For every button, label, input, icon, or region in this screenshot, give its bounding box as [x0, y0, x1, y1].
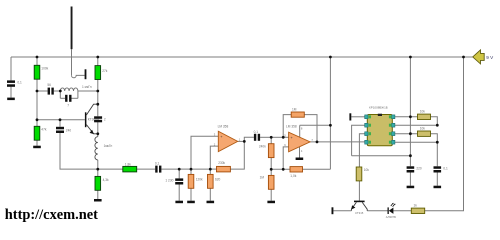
wire U2 pin 6 [283, 147, 288, 169]
terminal bar line input [332, 207, 334, 214]
wire U1 feedback node to R 230k [210, 168, 216, 170]
wire node A to node B [179, 168, 191, 170]
wire IC pin 3 right to R 10k B [395, 133, 418, 135]
wire node 91 to C 56 [37, 90, 48, 92]
svg-text:0,1: 0,1 [17, 81, 22, 85]
node base row left [36, 118, 39, 121]
wire R 240k bottom lead [270, 158, 272, 170]
wire C 1230 top lead [178, 169, 180, 178]
node U2 output [316, 141, 319, 144]
capacitor C4 240 [56, 127, 64, 133]
wire bottom row to R 1.8k [98, 168, 123, 170]
svg-text:1M: 1M [260, 176, 265, 180]
inductor L1 tank coil [60, 88, 78, 91]
wire node B to node C [191, 168, 210, 170]
svg-text:1M: 1M [292, 108, 297, 112]
wire far right drop [425, 57, 464, 211]
svg-text:КР1008ВЖ1Б: КР1008ВЖ1Б [369, 106, 388, 110]
node U1 output [243, 140, 246, 143]
wire U2 feedback riser to R 1M [283, 115, 291, 138]
node tank left [59, 90, 62, 93]
antenna coupling plate [85, 69, 87, 79]
wire C 1230 to ground [178, 184, 180, 200]
wire supply drop right of IC [409, 57, 411, 166]
wire R 240k node to feedback node [271, 136, 283, 138]
transistor Q2 KT315 bar [354, 201, 365, 203]
LED VD1 triangle [389, 208, 394, 214]
LED VD1 arrows [391, 203, 395, 207]
wire terminal to Q2 emitter [333, 210, 351, 212]
resistor R16 1k out [411, 208, 424, 213]
wire U2 power stub [299, 125, 301, 137]
node rail right drop [462, 56, 465, 59]
svg-text:10k: 10k [364, 168, 370, 172]
wire R 100k to node 91 [36, 79, 38, 91]
ground under C7 [175, 201, 183, 204]
resistor R6 120k [188, 174, 194, 188]
resistor R1 100k [34, 65, 40, 79]
wire collector node to C 2 [97, 104, 99, 116]
svg-text:240: 240 [66, 128, 72, 132]
svg-text:1,8k: 1,8k [125, 162, 131, 166]
resistor R5 1.8k [123, 166, 137, 172]
transistor Q2 emitter lead [351, 202, 356, 211]
node R240k top [270, 136, 273, 139]
node bias right [282, 168, 285, 171]
capacitor C8 0.1 interstage [254, 134, 260, 141]
resistor R3 27k [95, 66, 101, 80]
resistor R12 1.0k bias [290, 167, 303, 172]
wire R 230k to output riser [230, 141, 244, 169]
svg-text:2: 2 [104, 118, 106, 122]
wire C 2 to emitter node [97, 122, 99, 134]
resistor R14 10k B [418, 131, 431, 136]
wire IC pin 2 right [395, 124, 437, 126]
node emitter [96, 132, 99, 135]
capacitor C6 0.1 coupling [155, 166, 161, 173]
wire antenna thin lead [71, 49, 73, 75]
wire R 47k to ground [36, 140, 38, 146]
power arrow 9V [473, 50, 485, 64]
IC U3 inner pin marks right [389, 115, 391, 143]
svg-text:10k: 10k [420, 110, 426, 114]
svg-text:0,1: 0,1 [155, 162, 160, 166]
wire bias node to R 1M lower [270, 169, 272, 175]
node divider mid [36, 90, 39, 93]
svg-text:КТ315: КТ315 [355, 211, 363, 215]
wire R 120k top lead [190, 169, 192, 174]
node C pin2 [209, 168, 212, 171]
node rail IC drop [409, 56, 412, 59]
svg-text:100k: 100k [41, 66, 48, 70]
node R10kA junction [436, 124, 439, 127]
wire left drop from rail to C 0.1 [10, 57, 12, 80]
wire R 10k A to junction [431, 117, 438, 125]
resistor R4 4.7k [95, 176, 101, 190]
capacitor C10 0.1 right [434, 166, 442, 172]
wire bottom node to R 4.7k [97, 169, 99, 176]
IC U3 pin pads left [365, 115, 368, 144]
svg-text:7: 7 [67, 103, 69, 107]
svg-text:10k: 10k [420, 127, 426, 131]
wire R 1M lower to ground [270, 189, 272, 200]
node rail supply tap [329, 56, 332, 59]
LED VD1 cathode bar [388, 207, 389, 214]
antenna W1 mast [71, 7, 73, 50]
svg-text:56: 56 [47, 83, 51, 87]
IC U3 inner pin marks left [369, 115, 371, 143]
wire R 1.8k to C 0.1 input [137, 168, 156, 170]
resistor R7 620 [208, 174, 214, 188]
wire R 10k B to junction [431, 134, 438, 143]
wire U2 power row to supply tap [300, 124, 331, 126]
wire R 240k top lead [270, 137, 272, 143]
wire R 27k to tank node [97, 80, 99, 92]
node base row C240 [59, 118, 62, 121]
capacitor C5 2 [94, 116, 102, 122]
wire U1 output [238, 140, 245, 142]
svg-text:1k: 1k [414, 203, 418, 207]
svg-text:LM 358: LM 358 [218, 125, 229, 129]
svg-text:4,3k: 4,3k [103, 178, 109, 182]
node tank right [96, 90, 99, 93]
svg-text:1,0k: 1,0k [290, 174, 296, 178]
wire C 0.1 to node A [161, 168, 179, 170]
wire tank right side [77, 91, 79, 98]
node emitter bottom [96, 168, 99, 171]
transistor Q1 emitter lead [86, 125, 97, 134]
wire IC pin 4 right [395, 141, 437, 143]
wire C 240 down and right to bottom row [60, 133, 98, 170]
svg-text:1 230: 1 230 [165, 179, 173, 183]
ground under R7 [207, 201, 215, 204]
capacitor C9 220 [407, 166, 415, 172]
node supply tap mid [329, 124, 332, 127]
inductor L2 emitter choke [95, 137, 98, 160]
node rail R1 [36, 56, 39, 59]
resistor R10 1M feedback [291, 112, 304, 117]
wire base row [37, 119, 85, 121]
resistor R2 47k [34, 126, 40, 140]
svg-text:0,1: 0,1 [443, 167, 448, 171]
wire tank left side [59, 91, 61, 98]
IC U3 pin pads right [392, 115, 395, 144]
wire coil L2 to bottom node [97, 160, 99, 169]
wire U2 ground stub [299, 147, 301, 158]
wire IC pin 1 right to R 10k A [395, 116, 418, 118]
wire R 1k bias to supply tap corner [303, 168, 331, 170]
wire R 120k to ground [190, 188, 192, 200]
wire C 56 to tank left node [54, 90, 61, 92]
wire emitter node to coil L2 [97, 134, 99, 137]
op-amp U2 LM358 [289, 132, 311, 152]
ground left [7, 98, 15, 101]
capacitor C2 56 [48, 88, 54, 95]
transistor Q1 KT368A base bar [85, 112, 87, 127]
svg-text:0,1: 0,1 [254, 130, 259, 134]
svg-text:230k: 230k [218, 161, 225, 165]
wire rail to R 27k [97, 57, 99, 66]
ground bar U2 pin 4 [296, 158, 304, 161]
svg-text:1мкГн: 1мкГн [104, 144, 113, 148]
wire C 0.1 right to ground [436, 172, 438, 185]
wire R 1M to output drop [304, 115, 317, 142]
transistor Q2 emitter arrow [351, 205, 355, 209]
ground under R4 [94, 199, 102, 202]
wire IC pin 3 left riser [359, 134, 364, 167]
svg-text:220: 220 [416, 167, 422, 171]
node collector [96, 103, 99, 106]
capacitor C3 7 tank [65, 95, 71, 102]
wire C 240 top lead [59, 120, 61, 127]
svg-text:1 мкГн: 1 мкГн [82, 85, 92, 89]
wire pin 2 row to supply drop [352, 155, 411, 157]
wire C 220 to ground [409, 172, 411, 185]
transistor Q1 emitter arrow [90, 130, 94, 134]
node B pin3 [190, 168, 193, 171]
node IC drop pin3 [409, 132, 412, 135]
wire op-amp U1 pin 3 riser [191, 136, 218, 169]
wire tank bottom right stub [72, 97, 78, 99]
ground under R6 [187, 201, 195, 204]
resistor R8 230k feedback [217, 166, 231, 172]
resistor R13 10k A [418, 114, 431, 119]
wire supply tap vertical [329, 57, 331, 169]
wire tank bottom left stub [60, 97, 65, 99]
wire node to R 47k [36, 120, 38, 127]
wire R 10k base to Q2 [358, 181, 360, 201]
wire junction down to C 0.1 right [436, 142, 438, 166]
resistor R15 10k base [356, 167, 362, 181]
ground under R2 [33, 146, 41, 149]
svg-text:120k: 120k [196, 178, 203, 182]
svg-text:9 V: 9 V [486, 55, 494, 60]
wire node 91 to node 119.8 [36, 91, 38, 120]
wire bias row [271, 168, 290, 170]
svg-text:http://cxem.net: http://cxem.net [5, 207, 98, 223]
svg-text:620: 620 [215, 178, 221, 182]
wire tank node to collector node [97, 91, 99, 104]
capacitor C1 0.1 left [7, 80, 15, 86]
svg-text:47k: 47k [41, 127, 47, 131]
ground under R11 [267, 201, 275, 204]
wire U1 output jog up to C 0.1 [244, 137, 254, 141]
wire antenna hook [71, 75, 84, 77]
transistor Q1 collector lead [86, 104, 97, 115]
wire C 0.1 to R 240k node [260, 136, 271, 138]
wire R 620 to ground [209, 188, 211, 200]
svg-text:LM 358: LM 358 [286, 124, 297, 128]
wire U2 output row to IC pin 4 [310, 141, 365, 143]
ground under C10 [434, 186, 442, 189]
wire rail to R 100k [36, 57, 38, 65]
svg-text:АЛ307Б: АЛ307Б [386, 215, 396, 219]
wire R 4.7k to ground [97, 190, 99, 199]
svg-text:240k: 240k [259, 144, 266, 148]
node IC drop pin1 [409, 115, 412, 118]
node rail R3 [96, 56, 99, 59]
node bias left [270, 168, 273, 171]
node R10kB junction [436, 141, 439, 144]
transistor Q2 collector lead [362, 202, 367, 211]
wire IC pin 2 left [352, 125, 365, 156]
terminal bar IC pin 1 input [349, 113, 351, 120]
resistor R11 1M lower [268, 175, 274, 189]
wire feedback node to op-amp U2 pin 5 [283, 136, 288, 138]
op-amp U1 LM358 [218, 131, 237, 151]
ground under C9 [407, 186, 415, 189]
IC U3 KR1008 body [367, 115, 392, 146]
capacitor C7 1230 [175, 178, 183, 184]
node U2 feedback top [282, 136, 285, 139]
node A input [178, 168, 181, 171]
node IC drop C220 [409, 154, 412, 157]
wire R 620 top lead [209, 169, 211, 174]
wire LED to R 1k out [393, 210, 411, 212]
wire Q2 collector to LED [367, 210, 387, 212]
wire op-amp U1 pin 2 riser [210, 146, 218, 169]
wire top supply rail [11, 56, 473, 58]
resistor R9 240k [268, 144, 274, 158]
svg-text:27k: 27k [102, 69, 108, 73]
IC U3 notch [378, 114, 382, 116]
wire tank right to main vertical [78, 90, 98, 92]
wire C 0.1 to ground [10, 87, 12, 98]
wire terminal bar to IC pin 1 [351, 116, 364, 118]
